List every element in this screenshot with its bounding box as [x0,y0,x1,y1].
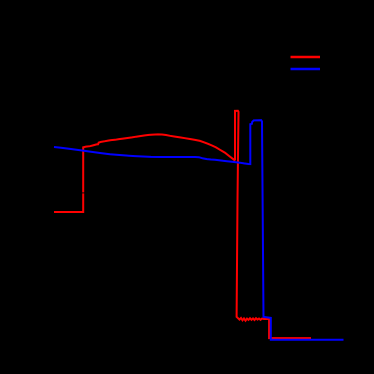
legend red line sample [291,56,321,59]
blue curve (trace 2) [54,120,344,340]
red curve (trace 1) [54,111,311,338]
legend blue line sample [291,68,321,71]
notch on red vertical segment [82,192,85,194]
